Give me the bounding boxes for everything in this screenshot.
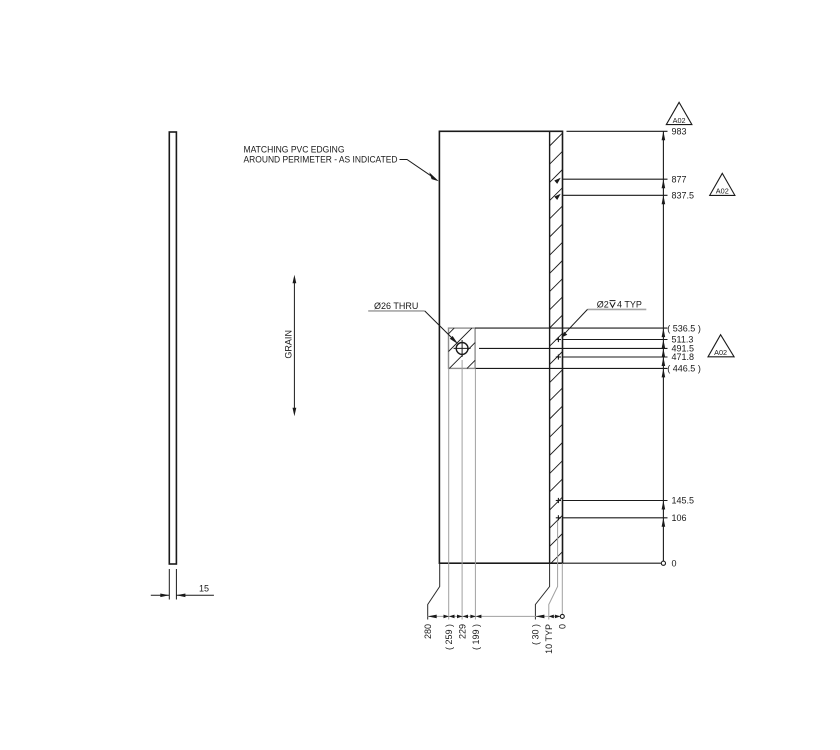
- pilot hole cross at 145.5: [556, 498, 561, 503]
- Ø2 underline: [588, 308, 647, 310]
- dimension 15 arrowheads: [160, 594, 169, 598]
- edging flag A02 top: [666, 102, 692, 124]
- datum origin circle bottom: [560, 614, 564, 618]
- Ø2 leader: [565, 309, 588, 333]
- bottom grey extension lines: [449, 360, 563, 620]
- svg-text:280: 280: [423, 624, 433, 639]
- svg-text:229: 229: [458, 624, 468, 639]
- side view extension lines for 15 dim: [169, 569, 176, 600]
- svg-text:( 199 ): ( 199 ): [471, 624, 481, 650]
- svg-text:4 TYP: 4 TYP: [617, 299, 642, 309]
- hole Ø26 circle: [456, 343, 468, 355]
- right horizontal dimension lines: [475, 131, 667, 563]
- svg-text:A02: A02: [673, 116, 686, 125]
- edging flag A02 middle: [708, 335, 734, 357]
- hole zone rectangle (projection, hatched): [449, 328, 476, 368]
- svg-text:Ø2: Ø2: [597, 299, 609, 309]
- svg-text:0: 0: [672, 558, 677, 568]
- pilot hole marks (NE arrows) at 877 and 837.5: [554, 178, 560, 184]
- svg-text:877: 877: [672, 174, 687, 184]
- svg-text:106: 106: [672, 513, 687, 523]
- svg-text:( 259 ): ( 259 ): [444, 624, 454, 650]
- Ø26 underline: [368, 310, 425, 312]
- pvc edging band hatch: [550, 133, 563, 563]
- side view panel (edge view, 15 thick): [169, 132, 176, 564]
- pvc edging band left edge: [549, 131, 551, 563]
- datum origin circle right: [661, 561, 665, 565]
- Ø26 leader: [425, 311, 453, 339]
- svg-text:AROUND PERIMETER - AS INDICATE: AROUND PERIMETER - AS INDICATED: [244, 154, 398, 164]
- depth symbol: [610, 301, 616, 308]
- svg-text:( 536.5 ): ( 536.5 ): [667, 323, 701, 333]
- right vertical dimension line: [662, 131, 664, 563]
- svg-text:( 446.5 ): ( 446.5 ): [667, 364, 701, 374]
- hole crosshair: [454, 340, 471, 357]
- svg-text:A02: A02: [716, 187, 729, 196]
- svg-text:471.8: 471.8: [672, 352, 695, 362]
- svg-text:10 TYP: 10 TYP: [544, 624, 554, 654]
- svg-text:0: 0: [558, 624, 568, 629]
- svg-text:A02: A02: [714, 348, 727, 357]
- pilot hole cross at 471.8: [556, 354, 561, 359]
- svg-text:( 30 ): ( 30 ): [531, 624, 541, 645]
- svg-text:MATCHING PVC EDGING: MATCHING PVC EDGING: [244, 145, 345, 155]
- bottom dimension arrowheads: [428, 615, 561, 619]
- svg-text:15: 15: [199, 584, 209, 594]
- svg-text:Ø26 THRU: Ø26 THRU: [374, 301, 418, 311]
- main panel outline: [439, 131, 562, 563]
- right dimension up-arrowheads: [662, 131, 666, 527]
- edging flag A02 right: [710, 173, 735, 195]
- svg-text:837.5: 837.5: [672, 191, 695, 201]
- note leader: [400, 160, 432, 177]
- bottom black jogged extension lines: [428, 563, 550, 619]
- grain direction arrow: [293, 278, 295, 413]
- pilot hole cross at 106: [556, 515, 561, 520]
- pilot hole cross at 511.3: [556, 337, 561, 342]
- bottom dimension line: [428, 615, 561, 617]
- svg-text:145.5: 145.5: [672, 496, 695, 506]
- hole zone hatch: [449, 328, 476, 368]
- svg-text:983: 983: [672, 127, 687, 137]
- svg-text:GRAIN: GRAIN: [284, 330, 294, 359]
- dimension 15 line: [151, 594, 214, 596]
